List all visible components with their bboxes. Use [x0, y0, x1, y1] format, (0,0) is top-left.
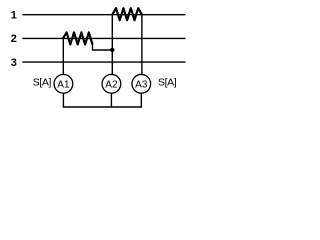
wire step from R2 to node — [93, 44, 113, 51]
wire bottom bus — [63, 106, 142, 108]
svg-text:S[A]: S[A] — [33, 76, 52, 88]
svg-text:A1: A1 — [57, 79, 70, 90]
wire vertical to A3 — [141, 15, 143, 75]
resistor R1 (zigzag on line 1) — [112, 8, 142, 20]
wire line 3 — [22, 61, 185, 63]
svg-text:A3: A3 — [135, 79, 148, 90]
ammeter A3 — [132, 74, 151, 93]
svg-text:S[A]: S[A] — [158, 76, 177, 88]
svg-text:2: 2 — [11, 33, 17, 45]
junction node dot — [110, 48, 114, 52]
ammeter A2 — [102, 74, 121, 93]
wire line 1 — [22, 14, 185, 16]
svg-text:3: 3 — [11, 57, 17, 69]
wire A2 bottom — [110, 93, 112, 107]
svg-text:A2: A2 — [105, 79, 118, 90]
wire vertical to A1 — [62, 38, 64, 74]
wire line 2 — [22, 37, 185, 39]
ammeter A1 — [54, 74, 73, 93]
wire A3 bottom — [140, 93, 142, 107]
svg-text:1: 1 — [11, 9, 17, 21]
wire A1 bottom — [62, 93, 64, 107]
resistor R2 (zigzag on line 2) — [63, 32, 93, 44]
wire vertical to A2 — [111, 15, 113, 75]
